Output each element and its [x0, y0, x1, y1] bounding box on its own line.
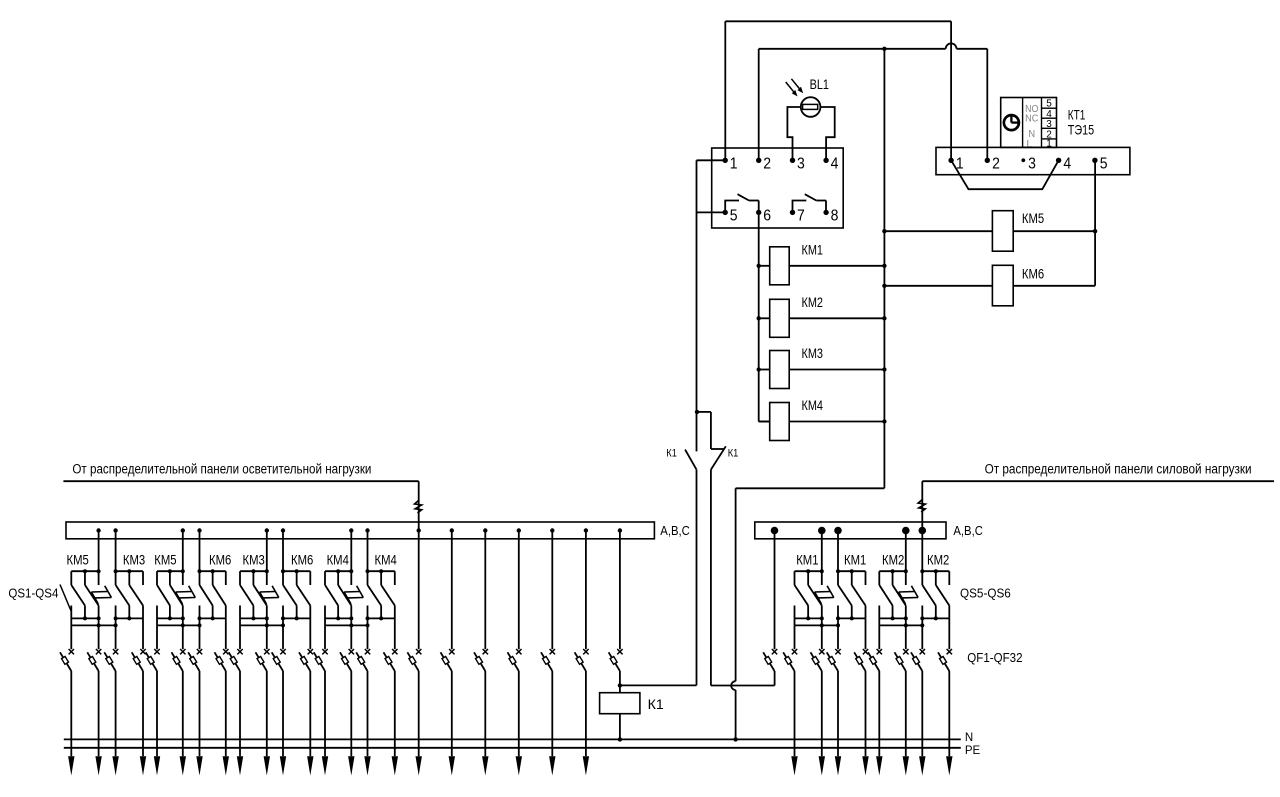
contact K1 (NC, right): [711, 412, 726, 686]
circuit breaker QF at x=949.3: [938, 618, 952, 671]
timer KT1 body: [1001, 98, 1057, 148]
circuit breaker QF at x=451.8: [441, 531, 455, 672]
label КМ1: [802, 241, 824, 257]
outgoing feeder arrow at x=879.3: [876, 671, 882, 776]
circuit breaker QF at x=199.5: [188, 625, 202, 671]
circuit breaker QF at x=922.3: [911, 625, 925, 671]
svg-text:К1: К1: [666, 447, 677, 459]
svg-text:КМ3: КМ3: [123, 551, 145, 567]
label A,B,C (left): [660, 523, 690, 538]
wire: feeders from bus to QS1 pair: [99, 531, 116, 572]
wire: main vertical drop to KM coils: [883, 49, 885, 489]
label КМ2 (QS6 pair A): [882, 551, 904, 567]
wire: QS6 output crossover: [879, 618, 924, 627]
label КМ4: [802, 397, 824, 413]
wire: pin 5 stub to left riser: [697, 211, 726, 213]
wire: pin 1 stub to left riser: [697, 159, 726, 161]
outgoing feeder arrow at x=394.8: [392, 671, 398, 776]
circuit breaker QF at x=585.9: [575, 531, 589, 672]
label: from power distribution panel: [985, 461, 1252, 476]
circuit breaker QF at x=351.3: [340, 625, 354, 671]
svg-text:4: 4: [1063, 155, 1071, 172]
contactor coil KM6: [882, 265, 1095, 306]
wire: K1 breaker output: [619, 671, 621, 685]
svg-text:QS1-QS4: QS1-QS4: [8, 585, 58, 600]
outgoing feeder arrow at x=418.7: [416, 671, 422, 776]
wire: first power breaker output drop: [774, 671, 776, 686]
svg-text:NC: NC: [1025, 112, 1039, 124]
pin 6 of K1 socket: [756, 207, 771, 224]
svg-text:1: 1: [730, 155, 738, 172]
outgoing feeder arrow at x=283: [280, 671, 286, 776]
pin 1 of K1 socket: [723, 155, 738, 172]
svg-text:КМ6: КМ6: [209, 551, 231, 567]
break symbol on lighting feeder: [415, 500, 422, 513]
svg-text:6: 6: [763, 207, 771, 224]
wire: feeders from bus to QS5 pair: [822, 531, 838, 572]
wire: QS2 output crossover: [157, 618, 202, 627]
outgoing feeder arrow at x=367.5: [364, 671, 370, 776]
pin 3 of K1 socket: [790, 155, 805, 172]
outgoing feeder arrow at x=143: [140, 671, 146, 776]
circuit breaker QF at x=225.8: [215, 618, 229, 671]
label QF1-QF32: [967, 650, 1022, 665]
contactor coil КМ1: [757, 247, 887, 285]
pin 3 of KT1 socket: [1021, 155, 1036, 172]
label QS5-QS6: [960, 586, 1011, 601]
mechanical link QS5: [815, 586, 834, 604]
outgoing feeder arrow at x=922.3: [919, 671, 925, 776]
circuit breaker QF at x=821.8: [811, 625, 825, 671]
node: K1 branch junction: [695, 410, 699, 414]
label КМ1 (QS5 pair B): [844, 551, 866, 567]
outgoing feeder arrow at x=182.8: [180, 671, 186, 776]
svg-text:КМ1: КМ1: [844, 551, 866, 567]
svg-text:От распределительной панели си: От распределительной панели силовой нагр…: [985, 461, 1252, 476]
break symbol on power feeder: [918, 500, 925, 513]
svg-text:КМ6: КМ6: [1022, 265, 1044, 281]
svg-text:КМ1: КМ1: [796, 551, 818, 567]
mechanical link QS6: [899, 586, 919, 604]
wire: QS4 output crossover: [325, 618, 370, 627]
outgoing feeder arrow at x=585.9: [583, 671, 589, 776]
outgoing feeder arrow at x=794.5: [791, 671, 797, 776]
label KM6: [1022, 265, 1044, 281]
outgoing feeder arrow at x=838: [835, 671, 841, 776]
outgoing feeder arrow at x=199.5: [196, 671, 202, 776]
label K1 (left contact): [666, 447, 677, 459]
relay coil K1: [600, 685, 640, 739]
outgoing feeder arrow at x=949.3: [946, 671, 952, 776]
svg-text:7: 7: [797, 207, 805, 224]
wire: feed elbow into KM4: [759, 421, 770, 423]
svg-text:5: 5: [730, 207, 738, 224]
pin 4 of K1 socket: [823, 155, 838, 172]
switch QS2 contacts КМ6: [198, 569, 226, 620]
svg-text:От распределительной панели ос: От распределительной панели осветительно…: [72, 461, 371, 476]
label КМ1 (QS5 pair A): [796, 551, 818, 567]
svg-text:КМ1: КМ1: [802, 241, 824, 257]
node: K1 coil at N bus: [618, 737, 622, 741]
switch QS1 contacts КМ5: [71, 569, 100, 620]
circuit breaker QF at x=418.7: [407, 649, 421, 671]
circuit breaker QF at x=310.3: [299, 618, 313, 671]
outgoing feeder arrow at x=451.8: [449, 671, 455, 776]
svg-text:КМ4: КМ4: [802, 397, 824, 413]
wire: KT1 pin 5 drop: [1094, 160, 1096, 231]
svg-text:2: 2: [763, 155, 771, 172]
pin 4 of KT1 socket: [1056, 155, 1072, 172]
wire: pin 6 drop to KM coil feed: [758, 212, 760, 421]
label КМ3: [802, 345, 824, 361]
svg-text:3: 3: [797, 155, 805, 172]
outgoing feeder arrow at x=240: [237, 671, 243, 776]
switch QS5 contacts КМ1: [795, 569, 824, 620]
label N: [965, 732, 973, 744]
bus N: [64, 738, 961, 740]
pin 1 of KT1 socket: [948, 155, 963, 172]
wire: BL1 left lead to pin 3: [787, 107, 801, 160]
wire: neutral run from main drop to N bus (hop over link wire): [731, 488, 884, 739]
outgoing feeder arrow at x=552.3: [549, 671, 555, 776]
node: neutral at N bus: [733, 737, 737, 741]
outgoing feeder arrow at x=905.8: [903, 671, 909, 776]
wire: feeders from bus to QS4 pair: [351, 531, 367, 572]
label KM5: [1022, 210, 1044, 226]
circuit breaker QF at x=115.6: [104, 625, 118, 671]
circuit breaker QF at x=794.5: [783, 625, 797, 671]
svg-text:4: 4: [831, 155, 839, 172]
svg-text:КМ2: КМ2: [882, 551, 904, 567]
svg-text:PE: PE: [965, 745, 981, 757]
wire: second control bus (pin 2 to KT1 pin 2) with hop over KT1 pin1 lead: [759, 43, 988, 160]
relay K1 socket box: [712, 148, 844, 228]
switch QS1 contacts КМ3: [114, 569, 143, 620]
bus bar A,B,C (lighting section): [66, 522, 654, 539]
bus PE: [64, 747, 961, 749]
circuit breaker QF at x=619.9: [609, 531, 623, 672]
leader line QS1-QS4: [60, 585, 72, 613]
outgoing feeder arrow at x=485.3: [482, 671, 488, 776]
label КМ3 (QS1 pair B): [123, 551, 145, 567]
light arrows at BL1: [786, 79, 804, 97]
circuit breaker QF at x=143: [132, 618, 146, 671]
circuit breaker QF at x=394.8: [384, 618, 398, 671]
svg-text:BL1: BL1: [810, 76, 830, 92]
switch QS3 contacts КМ3: [240, 569, 269, 620]
wire: branch to second K1 contact: [697, 411, 711, 413]
labels NO NC N L on KT1: [1025, 103, 1039, 150]
svg-text:3: 3: [1028, 155, 1036, 172]
wire: QS1 output crossover: [71, 618, 117, 627]
label КМ6 (QS3 pair B): [291, 551, 313, 567]
pin 7 of K1 socket: [790, 207, 805, 224]
switch QS4 contacts КМ4: [325, 569, 353, 620]
mechanical link QS4: [344, 586, 363, 604]
outgoing feeder arrow at x=115.6: [112, 671, 118, 776]
circuit breaker QF at x=182.8: [172, 625, 186, 671]
svg-text:8: 8: [831, 207, 839, 224]
label КМ2 (QS6 pair B): [927, 551, 949, 567]
wire: left riser: [696, 160, 698, 412]
contact K1 (NO, left): [685, 412, 696, 686]
circuit breaker QF at x=865.5: [854, 618, 868, 671]
wire: BL1 right lead to pin 4: [820, 107, 834, 160]
pin 5 of K1 socket: [723, 207, 738, 224]
outgoing feeder arrow at x=865.5: [862, 671, 868, 776]
svg-text:К1: К1: [728, 447, 739, 459]
label КМ2: [802, 294, 824, 310]
wire: KM5-KM6 right link: [1094, 231, 1096, 286]
label КМ5 (QS1 pair A): [67, 551, 89, 567]
contact K1 (pins 5-6): [725, 194, 759, 212]
svg-text:QS5-QS6: QS5-QS6: [960, 586, 1011, 601]
label КМ4 (QS4 pair B): [375, 551, 397, 567]
circuit breaker QF at x=266.8: [256, 625, 270, 671]
svg-text:КМ5: КМ5: [154, 551, 176, 567]
outgoing feeder arrow at x=310.3: [307, 671, 313, 776]
outgoing feeder arrow at x=351.3: [348, 671, 354, 776]
label PE: [965, 745, 981, 757]
svg-text:КМ6: КМ6: [291, 551, 313, 567]
circuit breaker QF at x=552.3: [541, 531, 555, 672]
mechanical link QS2: [176, 586, 196, 604]
circuit breaker QF at x=879.3: [868, 625, 882, 671]
wire: lighting supply feeder: [63, 481, 418, 649]
photoresistor BL1 body: [801, 97, 821, 117]
contactor coil КМ3: [757, 351, 887, 389]
circuit breaker QF at x=518.8: [508, 531, 522, 672]
circuit breaker QF at x=157: [146, 625, 160, 671]
wire: feeders from bus to QS3 pair: [267, 531, 283, 572]
outgoing feeder arrow at x=225.8: [223, 671, 229, 776]
svg-text:A,B,C: A,B,C: [660, 523, 690, 538]
svg-text:2: 2: [992, 155, 1000, 172]
label K1 (coil): [648, 696, 664, 712]
switch QS6 contacts КМ2: [879, 569, 908, 620]
circuit breaker QF at x=905.8: [895, 625, 909, 671]
pin 8 of K1 socket: [823, 207, 838, 224]
label K1 (right contact): [728, 447, 739, 459]
switch QS4 contacts КМ4: [366, 569, 395, 620]
outgoing feeder arrow at x=98.6: [95, 671, 101, 776]
pin 5 of KT1 socket: [1092, 155, 1107, 172]
switch QS3 contacts КМ6: [281, 569, 310, 620]
svg-text:КМ2: КМ2: [802, 294, 824, 310]
wire: power supply feeder: [922, 481, 1274, 571]
outgoing feeder arrow at x=71.3: [68, 671, 74, 776]
contact K1 (pins 7-8): [793, 194, 827, 212]
wire: feeders from bus to QS6 pair: [905, 531, 907, 572]
timer KT1 socket bar: [936, 147, 1130, 174]
svg-text:A,B,C: A,B,C: [953, 523, 983, 538]
outgoing feeder arrow at x=518.8: [516, 671, 522, 776]
label QS1-QS4: [8, 585, 58, 600]
wire: K1 coil link (left contact to coil): [620, 684, 697, 686]
circuit breaker QF at x=485.3: [474, 531, 488, 672]
circuit breaker QF at x=774.5: [763, 531, 777, 672]
node: junction of second bus and main drop: [882, 47, 886, 51]
svg-text:К1: К1: [648, 696, 664, 712]
switch QS6 contacts КМ2: [920, 569, 949, 620]
circuit breaker QF at x=838: [827, 625, 841, 671]
label КМ6 (QS2 pair B): [209, 551, 231, 567]
label TE15: [1068, 122, 1095, 138]
circuit breaker QF at x=283: [272, 625, 286, 671]
svg-text:КМ3: КМ3: [802, 345, 824, 361]
label КМ4 (QS4 pair A): [327, 551, 349, 567]
label BL1: [810, 76, 830, 92]
svg-text:L: L: [1026, 138, 1032, 150]
pin 2 of KT1 socket: [985, 155, 1000, 172]
wire: QS5 output crossover: [795, 618, 841, 627]
circuit breaker QF at x=240: [229, 625, 243, 671]
svg-text:КМ5: КМ5: [67, 551, 89, 567]
wire: jumper pins 1-4 of KT1: [951, 160, 1059, 189]
outgoing feeder arrow at x=325: [322, 671, 328, 776]
switch QS5 contacts КМ1: [836, 569, 866, 620]
svg-text:КМ2: КМ2: [927, 551, 949, 567]
bus bar A,B,C (power section): [755, 522, 946, 539]
wire: right contact to power section breaker: [711, 685, 775, 687]
pin 2 of K1 socket: [756, 155, 771, 172]
mechanical link QS3: [260, 586, 279, 604]
svg-text:QF1-QF32: QF1-QF32: [967, 650, 1022, 665]
switch QS2 contacts КМ5: [157, 569, 185, 620]
wire: feeders from bus to QS2 pair: [183, 531, 200, 572]
svg-text:КМ4: КМ4: [375, 551, 397, 567]
contactor coil KM5: [882, 211, 1097, 252]
label A,B,C (right): [953, 523, 983, 538]
wire: top control bus (from pin 1 to KT1 pin 1): [725, 21, 951, 160]
label KT1: [1068, 107, 1086, 123]
circuit breaker QF at x=98.6: [87, 625, 101, 671]
clock icon on KT1: [1004, 115, 1020, 131]
svg-text:КМ3: КМ3: [243, 551, 265, 567]
label КМ5 (QS2 pair A): [154, 551, 176, 567]
circuit breaker QF at x=71.3: [60, 625, 74, 671]
terminal numbers 5-1 on KT1: [1046, 99, 1052, 150]
outgoing feeder arrow at x=157: [154, 671, 160, 776]
svg-text:N: N: [965, 732, 973, 744]
label КМ3 (QS3 pair A): [243, 551, 265, 567]
wire: QS3 output crossover: [240, 618, 285, 627]
nodes: right bus connection dots: [771, 527, 926, 535]
node: K1 coil feed junction: [618, 683, 622, 687]
contactor coil КМ2: [757, 299, 887, 337]
svg-text:5: 5: [1100, 155, 1108, 172]
label: from lighting distribution panel: [72, 461, 371, 476]
svg-text:КМ4: КМ4: [327, 551, 349, 567]
outgoing feeder arrow at x=821.8: [819, 671, 825, 776]
svg-text:КТ1: КТ1: [1068, 107, 1086, 123]
nodes: left bus connection dots: [96, 528, 622, 532]
svg-text:3: 3: [1046, 119, 1052, 130]
outgoing feeder arrow at x=266.8: [264, 671, 270, 776]
circuit breaker QF at x=325: [314, 625, 328, 671]
circuit breaker QF at x=367.5: [356, 625, 370, 671]
svg-text:КМ5: КМ5: [1022, 210, 1044, 226]
mechanical link QS1: [91, 586, 111, 604]
svg-text:ТЭ15: ТЭ15: [1068, 122, 1095, 138]
contactor coil КМ4: [759, 403, 887, 441]
